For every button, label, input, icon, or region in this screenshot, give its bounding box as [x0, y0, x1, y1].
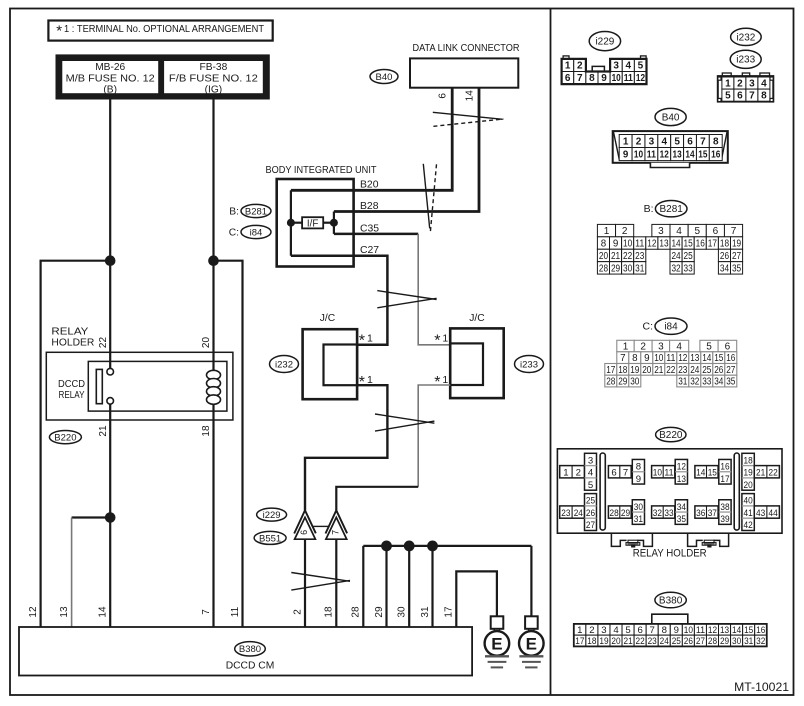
svg-text:B281: B281 — [245, 206, 267, 217]
svg-text:*: * — [359, 374, 365, 391]
svg-text:8: 8 — [589, 73, 595, 84]
svg-text:6: 6 — [737, 91, 743, 102]
svg-text:10: 10 — [634, 149, 644, 160]
svg-text:MT-10021: MT-10021 — [734, 680, 789, 694]
svg-text:21: 21 — [756, 468, 765, 479]
ground bus wire — [363, 545, 531, 547]
svg-text:14: 14 — [732, 625, 742, 636]
svg-text:26: 26 — [586, 508, 595, 519]
svg-text:1: 1 — [577, 625, 582, 636]
relay contact terminal top — [107, 368, 114, 375]
wire between triangles — [313, 525, 329, 527]
svg-text:9: 9 — [601, 73, 607, 84]
svg-text:13: 13 — [659, 238, 669, 249]
internal wire B20-C27 bus — [290, 190, 292, 256]
svg-text:2: 2 — [640, 341, 646, 352]
relay contact terminal bottom — [107, 398, 114, 405]
svg-text:9: 9 — [674, 625, 679, 636]
svg-text:10: 10 — [654, 353, 664, 364]
svg-text:6: 6 — [565, 73, 571, 84]
svg-text:28: 28 — [610, 508, 619, 519]
svg-text:42: 42 — [744, 520, 753, 531]
svg-text:18: 18 — [618, 365, 628, 376]
svg-text:1: 1 — [725, 78, 731, 89]
svg-text:MB-26: MB-26 — [95, 62, 125, 73]
svg-text:B20: B20 — [360, 180, 379, 191]
svg-text:1: 1 — [442, 333, 448, 345]
svg-text:20: 20 — [599, 251, 609, 262]
junction connector J/C i232 — [303, 313, 358, 399]
svg-text:35: 35 — [732, 263, 742, 274]
svg-text:B40: B40 — [662, 112, 680, 123]
connector label i232 — [270, 356, 299, 373]
wire to triangle pin 7 — [336, 487, 418, 511]
wire bus to ground E right — [530, 546, 532, 616]
svg-text:1: 1 — [563, 468, 568, 479]
svg-text:*: * — [434, 374, 440, 391]
junction on wire MB-26 — [105, 255, 116, 266]
svg-text:44: 44 — [769, 508, 779, 519]
svg-text:4: 4 — [676, 226, 682, 237]
junction on wire FB-38 — [208, 255, 219, 266]
svg-text:18: 18 — [201, 425, 212, 437]
svg-text:1: 1 — [442, 374, 448, 386]
svg-text:i84: i84 — [664, 322, 678, 333]
connector label i84 with prefix C: — [229, 225, 271, 238]
svg-text:14: 14 — [696, 468, 706, 479]
svg-text:4: 4 — [661, 136, 667, 147]
svg-text:31: 31 — [635, 263, 644, 274]
svg-text:11: 11 — [647, 149, 657, 160]
wire C27 — [291, 256, 388, 345]
wire triangle 7 to DCCD CM pin 18 — [335, 539, 337, 627]
svg-text:i84: i84 — [250, 227, 263, 238]
svg-text:16: 16 — [711, 149, 721, 160]
svg-text:F/B FUSE NO. 12: F/B FUSE NO. 12 — [169, 74, 258, 85]
svg-text:1: 1 — [367, 333, 373, 345]
junction connector J/C i233 — [450, 313, 504, 398]
junction at I/F right — [330, 219, 338, 227]
wire B28 internal — [334, 210, 354, 213]
svg-text:7: 7 — [749, 91, 755, 102]
svg-text:4: 4 — [588, 468, 594, 479]
svg-text:6: 6 — [611, 468, 616, 479]
svg-text:14: 14 — [98, 606, 109, 618]
connector B220 pinout — [557, 427, 782, 533]
connector i232/i233 pinout — [718, 28, 774, 101]
svg-text:4: 4 — [761, 78, 767, 89]
svg-text:36: 36 — [696, 508, 705, 519]
svg-text:30: 30 — [397, 606, 408, 618]
svg-text:J/C: J/C — [320, 313, 336, 324]
svg-text:34: 34 — [720, 263, 730, 274]
connector B281 pinout with prefix B: — [597, 201, 742, 275]
twisted pair symbol on C27/C35 wires — [377, 291, 436, 308]
wire B20 internal — [291, 189, 354, 192]
svg-text:5: 5 — [638, 61, 644, 72]
fuse block border — [57, 55, 269, 98]
svg-text:11: 11 — [696, 625, 705, 636]
svg-text:12: 12 — [677, 461, 686, 472]
svg-text:7: 7 — [650, 625, 655, 636]
svg-text:25: 25 — [702, 365, 712, 376]
wire from fuse MB-26 to relay contact pin 22 — [109, 98, 111, 369]
svg-text:11: 11 — [624, 73, 634, 84]
svg-text:21: 21 — [98, 425, 109, 437]
wire triangle 6 to DCCD CM pin 2 — [304, 539, 306, 627]
svg-text:6: 6 — [299, 530, 309, 535]
svg-text:2: 2 — [576, 468, 581, 479]
svg-text:19: 19 — [744, 468, 753, 479]
svg-text:B220: B220 — [659, 430, 683, 441]
svg-text:29: 29 — [621, 508, 630, 519]
svg-text:20: 20 — [744, 480, 753, 491]
svg-text:C27: C27 — [360, 245, 379, 256]
svg-text:(IG): (IG) — [205, 85, 223, 96]
junction at I/F left — [287, 219, 295, 227]
wire C35 — [334, 233, 418, 236]
connector B40 pinout — [613, 108, 728, 167]
svg-text:27: 27 — [726, 365, 735, 376]
relay holder mounting brackets — [611, 534, 728, 547]
wire DLC pin 14 to B28 — [354, 88, 479, 212]
connector label B380 — [235, 642, 266, 656]
wire J/C i232 output to triangle pin 6 — [305, 385, 387, 510]
svg-text:1: 1 — [623, 341, 629, 352]
svg-text:6: 6 — [438, 93, 449, 99]
svg-text:2: 2 — [292, 609, 303, 615]
wire to I/F left — [291, 222, 302, 224]
junction bus pin 31 — [427, 541, 438, 552]
block I/F — [302, 217, 323, 229]
svg-text:BODY INTEGRATED UNIT: BODY INTEGRATED UNIT — [266, 165, 378, 176]
junction bus pin 29 — [381, 541, 392, 552]
svg-text:8: 8 — [761, 91, 767, 102]
svg-text:i232: i232 — [736, 32, 755, 43]
wire from fuse FB-38 to relay coil pin 20 — [212, 98, 214, 371]
svg-text:28: 28 — [606, 376, 616, 387]
connector B380 pinout — [574, 592, 767, 647]
svg-text:I/F: I/F — [307, 218, 318, 229]
svg-text:13: 13 — [690, 353, 700, 364]
relay holder outline B220 — [46, 326, 233, 420]
svg-text:1: 1 — [565, 61, 571, 72]
svg-text:4: 4 — [626, 61, 632, 72]
twisted pair symbol on B20/B28 wires — [423, 164, 436, 233]
svg-text:5: 5 — [725, 91, 731, 102]
svg-text:20: 20 — [201, 337, 212, 349]
svg-text:*: * — [434, 333, 440, 350]
connector label i229 — [257, 508, 287, 521]
svg-text:21: 21 — [654, 365, 663, 376]
svg-text:30: 30 — [630, 376, 640, 387]
svg-text:E: E — [526, 635, 537, 654]
wire J/C i233 output gray segment — [418, 385, 450, 487]
connector i229 pinout — [562, 31, 647, 84]
svg-text:37: 37 — [708, 508, 717, 519]
connector label B220 — [49, 431, 81, 444]
svg-text:6: 6 — [687, 136, 693, 147]
svg-text:16: 16 — [696, 238, 706, 249]
connector DATA LINK CONNECTOR — [410, 43, 520, 88]
svg-text:7: 7 — [620, 353, 625, 364]
svg-text:33: 33 — [684, 263, 694, 274]
svg-text:10: 10 — [623, 238, 633, 249]
svg-text:26: 26 — [720, 251, 730, 262]
svg-text:32: 32 — [653, 508, 662, 519]
svg-text:4: 4 — [613, 625, 619, 636]
svg-text:HOLDER: HOLDER — [51, 338, 94, 349]
fuse FB-38 F/B FUSE NO.12 (IG) — [163, 60, 263, 95]
svg-text:i232: i232 — [275, 359, 293, 370]
svg-text:3: 3 — [601, 625, 606, 636]
svg-text:10: 10 — [684, 625, 693, 636]
internal wire B28-C35 bus — [333, 212, 335, 234]
svg-text:*: * — [359, 333, 365, 350]
junction bus pin 30 — [404, 541, 415, 552]
svg-text:29: 29 — [374, 606, 385, 618]
svg-text:3: 3 — [613, 61, 619, 72]
svg-text:18: 18 — [744, 455, 753, 466]
label *1 bottom left J/C — [359, 374, 373, 391]
svg-text:18: 18 — [720, 238, 730, 249]
svg-text:i233: i233 — [520, 359, 538, 370]
svg-text:5: 5 — [706, 341, 712, 352]
svg-text:7: 7 — [577, 73, 583, 84]
svg-text:2: 2 — [577, 61, 583, 72]
svg-text:2: 2 — [737, 78, 743, 89]
svg-text:19: 19 — [630, 365, 639, 376]
wire to I/F right — [323, 222, 334, 224]
svg-text:40: 40 — [744, 496, 753, 507]
svg-text:RELAY: RELAY — [51, 326, 88, 337]
svg-text:8: 8 — [662, 625, 667, 636]
wire bus to DCCD CM pin 28 — [362, 546, 364, 627]
svg-text:M/B FUSE NO. 12: M/B FUSE NO. 12 — [66, 74, 155, 85]
svg-text:B:: B: — [644, 203, 654, 215]
svg-text:14: 14 — [464, 90, 475, 102]
svg-text:15: 15 — [698, 149, 708, 160]
svg-text:9: 9 — [644, 353, 649, 364]
svg-text:7: 7 — [731, 226, 737, 237]
svg-text:39: 39 — [720, 514, 729, 525]
svg-text:16: 16 — [726, 353, 736, 364]
svg-text:9: 9 — [613, 238, 618, 249]
svg-text:C35: C35 — [360, 223, 379, 234]
wire branch to DCCD CM pin 13 — [72, 516, 111, 518]
svg-text:3: 3 — [658, 226, 664, 237]
svg-text:28: 28 — [351, 606, 362, 618]
svg-text:24: 24 — [671, 251, 681, 262]
svg-text:11: 11 — [666, 353, 675, 364]
svg-text:6: 6 — [637, 625, 642, 636]
svg-text:2: 2 — [622, 226, 628, 237]
svg-text:6: 6 — [725, 341, 731, 352]
svg-text:23: 23 — [678, 365, 688, 376]
twisted pair symbol on pins 2/18 wires — [291, 573, 350, 591]
svg-text:8: 8 — [632, 353, 638, 364]
svg-text:16: 16 — [720, 461, 729, 472]
label *1 bottom right J/C — [434, 374, 448, 391]
connector triangle pin 6 — [294, 510, 316, 539]
svg-text:29: 29 — [618, 376, 627, 387]
svg-text:17: 17 — [606, 365, 615, 376]
svg-text:24: 24 — [690, 365, 700, 376]
svg-text:FB-38: FB-38 — [200, 62, 228, 73]
svg-text:13: 13 — [720, 625, 729, 636]
svg-text:*: * — [56, 23, 62, 40]
label *1 top right J/C — [434, 333, 448, 350]
svg-text:C:: C: — [643, 321, 654, 333]
svg-text:B40: B40 — [376, 72, 393, 83]
wire DLC pin 6 to B20 — [354, 88, 453, 191]
connector label B40 — [370, 70, 398, 84]
wire bus to DCCD CM pin 29 — [385, 546, 387, 627]
svg-text:10: 10 — [653, 468, 662, 479]
svg-text:32: 32 — [671, 263, 680, 274]
svg-text:B281: B281 — [660, 204, 684, 215]
svg-text:33: 33 — [702, 376, 712, 387]
svg-text:14: 14 — [671, 238, 681, 249]
svg-text:9: 9 — [636, 474, 641, 485]
svg-text:8: 8 — [601, 238, 607, 249]
junction on wire pin 14 — [105, 512, 116, 523]
svg-text:25: 25 — [586, 496, 595, 507]
svg-text:15: 15 — [744, 625, 753, 636]
svg-text:B380: B380 — [659, 595, 683, 606]
svg-text:15: 15 — [714, 353, 724, 364]
svg-text:B:: B: — [229, 207, 239, 218]
svg-text:12: 12 — [660, 149, 670, 160]
svg-text:21: 21 — [611, 251, 620, 262]
fuse MB-26 M/B FUSE NO.12 (B) — [62, 60, 160, 95]
svg-text:23: 23 — [561, 508, 570, 519]
svg-text:DCCD: DCCD — [58, 379, 85, 390]
svg-text:31: 31 — [678, 376, 687, 387]
svg-text:22: 22 — [666, 365, 675, 376]
svg-text:12: 12 — [678, 353, 687, 364]
svg-text:3: 3 — [649, 136, 655, 147]
svg-text:J/C: J/C — [469, 313, 485, 324]
svg-text:DCCD CM: DCCD CM — [226, 661, 275, 672]
wire bus to DCCD CM pin 30 — [408, 546, 410, 627]
svg-text:30: 30 — [623, 263, 633, 274]
svg-text:6: 6 — [713, 226, 719, 237]
svg-text:8: 8 — [636, 461, 641, 472]
svg-text:31: 31 — [420, 606, 431, 618]
svg-text:DATA LINK CONNECTOR: DATA LINK CONNECTOR — [413, 43, 520, 54]
svg-text:14: 14 — [702, 353, 712, 364]
connector i84 pinout with prefix C: — [605, 318, 737, 387]
svg-text:7: 7 — [331, 530, 341, 535]
svg-text:22: 22 — [769, 468, 778, 479]
twisted pair symbol on J/C output wires — [375, 414, 434, 431]
svg-text:38: 38 — [720, 502, 729, 513]
svg-text:12: 12 — [647, 238, 656, 249]
svg-text:35: 35 — [677, 514, 686, 525]
svg-text:7: 7 — [623, 468, 628, 479]
svg-text:12: 12 — [708, 625, 717, 636]
note *1 TERMINAL No. OPTIONAL ARRANGEMENT — [48, 21, 272, 41]
wire relay coil pin 18 to DCCD CM pin 7 — [212, 405, 214, 628]
svg-text:11: 11 — [230, 606, 241, 617]
unit DCCD CM B380 — [19, 627, 472, 676]
svg-text:2: 2 — [589, 625, 594, 636]
wire bus to DCCD CM pin 31 — [431, 546, 433, 627]
svg-text:34: 34 — [714, 376, 724, 387]
svg-text:41: 41 — [744, 508, 753, 519]
svg-text:16: 16 — [756, 625, 765, 636]
svg-text:RELAY HOLDER: RELAY HOLDER — [633, 548, 707, 560]
svg-text:11: 11 — [635, 238, 644, 249]
svg-text:30: 30 — [634, 502, 643, 513]
svg-text:1 : TERMINAL No. OPTIONAL ARRA: 1 : TERMINAL No. OPTIONAL ARRANGEMENT — [64, 24, 264, 35]
svg-text:i229: i229 — [263, 510, 281, 521]
svg-text:25: 25 — [684, 251, 694, 262]
svg-text:E: E — [491, 635, 502, 654]
svg-text:7: 7 — [201, 609, 212, 615]
svg-text:2: 2 — [636, 136, 642, 147]
svg-text:8: 8 — [713, 136, 719, 147]
svg-text:27: 27 — [586, 520, 595, 531]
ground E right — [519, 616, 544, 667]
svg-text:9: 9 — [623, 149, 629, 160]
svg-text:B551: B551 — [259, 533, 281, 544]
svg-text:3: 3 — [658, 341, 664, 352]
svg-text:i229: i229 — [595, 37, 614, 48]
svg-text:35: 35 — [726, 376, 736, 387]
svg-text:12: 12 — [28, 606, 39, 618]
wire branch to DCCD CM pin 11 — [214, 261, 243, 627]
svg-text:15: 15 — [684, 238, 694, 249]
twisted pair symbol on DLC wires — [433, 112, 504, 126]
svg-text:B28: B28 — [360, 201, 379, 212]
svg-text:34: 34 — [677, 502, 687, 513]
svg-text:4: 4 — [676, 341, 682, 352]
svg-text:5: 5 — [694, 226, 700, 237]
connector label i233 — [515, 356, 544, 373]
relay contact bar — [96, 369, 102, 403]
svg-text:1: 1 — [604, 226, 610, 237]
svg-text:23: 23 — [635, 251, 645, 262]
wire pin 13 gray segment — [71, 518, 73, 628]
svg-text:5: 5 — [588, 480, 593, 491]
svg-text:5: 5 — [674, 136, 680, 147]
svg-text:15: 15 — [708, 468, 717, 479]
svg-text:14: 14 — [685, 149, 695, 160]
relay DCCD RELAY — [58, 361, 227, 411]
relay coil — [207, 370, 221, 404]
wire DCCD CM pin 17 to ground E left — [456, 571, 497, 627]
wire relay contact pin 21 to DCCD CM pin 14 — [109, 404, 111, 627]
DCCD CM pin labels — [28, 606, 455, 618]
svg-text:5: 5 — [625, 625, 630, 636]
svg-text:22: 22 — [98, 337, 109, 349]
svg-text:26: 26 — [714, 365, 724, 376]
svg-text:28: 28 — [599, 263, 609, 274]
svg-text:10: 10 — [612, 73, 622, 84]
svg-text:3: 3 — [749, 78, 755, 89]
svg-text:13: 13 — [673, 149, 683, 160]
svg-text:11: 11 — [664, 468, 673, 479]
svg-text:1: 1 — [623, 136, 629, 147]
svg-text:i233: i233 — [736, 55, 755, 66]
svg-text:12: 12 — [636, 73, 646, 84]
svg-text:B380: B380 — [239, 644, 261, 655]
connector triangle pin 7 — [326, 510, 348, 539]
svg-text:3: 3 — [588, 455, 593, 466]
svg-text:13: 13 — [59, 606, 70, 618]
